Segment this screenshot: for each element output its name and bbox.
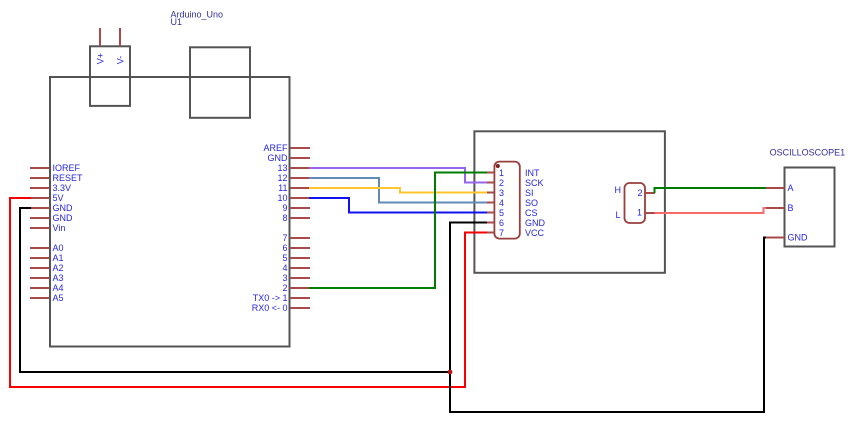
svg-text:4: 4: [499, 198, 504, 208]
svg-text:INT: INT: [525, 168, 540, 178]
svg-text:RX0 <- 0: RX0 <- 0: [252, 303, 288, 313]
svg-text:7: 7: [499, 228, 504, 238]
svg-text:RESET: RESET: [53, 173, 84, 183]
U1 pin GND a: [30, 203, 73, 213]
U1 pin 5: [282, 253, 310, 263]
svg-text:SO: SO: [525, 198, 538, 208]
U1 pin 2: [282, 283, 310, 293]
svg-text:8: 8: [282, 213, 287, 223]
wire probe L to oscilloscope B salmon: [655, 208, 767, 213]
svg-text:10: 10: [277, 193, 287, 203]
OSCILLOSCOPE1 pin GND: [765, 233, 808, 243]
svg-text:L: L: [615, 210, 620, 220]
svg-text:U1: U1: [171, 17, 183, 27]
svg-text:B: B: [788, 203, 794, 213]
OSCILLOSCOPE1 body: [785, 168, 835, 247]
U1 pin IOREF: [30, 163, 81, 173]
U1 pin 10: [277, 193, 310, 203]
label Arduino_Uno U1: [171, 10, 224, 27]
svg-text:TX0 -> 1: TX0 -> 1: [253, 293, 288, 303]
U1 pin GND right: [268, 153, 311, 163]
svg-text:GND: GND: [53, 213, 74, 223]
svg-text:A1: A1: [53, 253, 64, 263]
U1 pin 9: [282, 203, 310, 213]
U1 pin 4: [282, 263, 310, 273]
header pin 1 INT: [486, 168, 540, 178]
header pin 2 SCK: [486, 178, 544, 188]
OSCILLOSCOPE1 pin B: [765, 203, 794, 213]
svg-text:A4: A4: [53, 283, 64, 293]
U1 pin 3: [282, 273, 310, 283]
svg-text:VCC: VCC: [525, 228, 545, 238]
wire D13 to SCK purple: [309, 168, 487, 183]
svg-text:2: 2: [499, 178, 504, 188]
U1 pin GND b: [30, 213, 73, 223]
U1 pin RESET: [30, 173, 83, 183]
U1 pin RX0 0: [252, 303, 310, 313]
svg-text:1: 1: [637, 208, 642, 218]
svg-text:2: 2: [637, 188, 642, 198]
header pin 6 GND: [486, 218, 546, 228]
svg-text:V+: V+: [95, 53, 105, 64]
svg-text:9: 9: [282, 203, 287, 213]
U1 pin TX0 1: [253, 293, 310, 303]
wire D10 to CS blue: [309, 198, 487, 213]
svg-text:4: 4: [282, 263, 287, 273]
SPI module outer body: [474, 131, 665, 272]
SPI header body: [494, 162, 519, 239]
svg-text:H: H: [615, 185, 622, 195]
U1 pin A0: [30, 243, 64, 253]
svg-text:2: 2: [282, 283, 287, 293]
U1 pin 5V: [30, 193, 64, 203]
svg-text:GND: GND: [788, 233, 809, 243]
U1 pin 12: [277, 173, 310, 183]
svg-text:SCK: SCK: [525, 178, 544, 188]
svg-text:3: 3: [282, 273, 287, 283]
component U1 Arduino_Uno main body: [50, 77, 290, 347]
svg-text:GND: GND: [53, 203, 74, 213]
header pin 7 VCC: [486, 228, 545, 238]
wire D12 to SO steelblue: [309, 178, 487, 203]
svg-text:Vin: Vin: [53, 223, 66, 233]
svg-text:5: 5: [499, 208, 504, 218]
header pin 5 CS: [486, 208, 538, 218]
svg-text:5: 5: [282, 253, 287, 263]
svg-text:IOREF: IOREF: [53, 163, 81, 173]
U1 pin A2: [30, 263, 64, 273]
svg-text:A5: A5: [53, 293, 64, 303]
svg-text:A0: A0: [53, 243, 64, 253]
U1 pin 11: [278, 183, 310, 193]
svg-text:5V: 5V: [53, 193, 64, 203]
wire probe H to oscilloscope A green: [655, 188, 767, 193]
header pin 4 SO: [486, 198, 538, 208]
svg-text:AREF: AREF: [263, 143, 288, 153]
wire GND net black left loop: [20, 208, 450, 372]
svg-text:3: 3: [499, 188, 504, 198]
U1 power jack box: [90, 46, 130, 106]
svg-text:6: 6: [282, 243, 287, 253]
svg-text:A2: A2: [53, 263, 64, 273]
U1 pin A1: [30, 253, 64, 263]
U1 pin 13: [277, 163, 310, 173]
probe pin 2 H: [615, 185, 656, 198]
svg-text:CS: CS: [525, 208, 538, 218]
U1 pin AREF: [263, 143, 310, 153]
wire D11 to SI gold: [309, 188, 487, 193]
U1 USB connector box: [190, 47, 250, 118]
svg-text:6: 6: [499, 218, 504, 228]
wire GND net black chip to oscilloscope: [450, 223, 766, 413]
svg-text:GND: GND: [268, 153, 289, 163]
pin-1 marker dot: [496, 164, 500, 168]
probe pin 1 L: [615, 208, 655, 220]
svg-text:OSCILLOSCOPE1: OSCILLOSCOPE1: [770, 147, 846, 157]
svg-text:13: 13: [277, 163, 287, 173]
svg-text:1: 1: [499, 168, 504, 178]
junction GND net: [448, 370, 453, 375]
svg-text:GND: GND: [525, 218, 546, 228]
U1 pin 3.3V: [30, 183, 71, 193]
svg-text:7: 7: [282, 233, 287, 243]
probe H/L body: [625, 183, 646, 223]
U1 pin 8: [282, 213, 310, 223]
U1 pin Vin: [30, 223, 65, 233]
OSCILLOSCOPE1 pin A: [765, 183, 794, 193]
U1 pin A5: [30, 293, 64, 303]
svg-text:A3: A3: [53, 273, 64, 283]
U1 power jack pin V+: [99, 28, 101, 46]
svg-text:11: 11: [278, 183, 287, 193]
svg-text:V-: V-: [115, 56, 125, 65]
U1 power jack pin V-: [119, 28, 121, 46]
U1 pin A3: [30, 273, 64, 283]
wire D2 to INT green: [309, 173, 487, 289]
header pin 3 SI: [486, 188, 534, 198]
svg-text:SI: SI: [525, 188, 534, 198]
svg-text:3.3V: 3.3V: [53, 183, 72, 193]
U1 pin A4: [30, 283, 64, 293]
svg-text:12: 12: [277, 173, 287, 183]
svg-text:A: A: [788, 183, 794, 193]
U1 pin 6: [282, 243, 310, 253]
wire 5V to VCC red: [10, 198, 487, 387]
U1 pin 7: [282, 233, 310, 243]
